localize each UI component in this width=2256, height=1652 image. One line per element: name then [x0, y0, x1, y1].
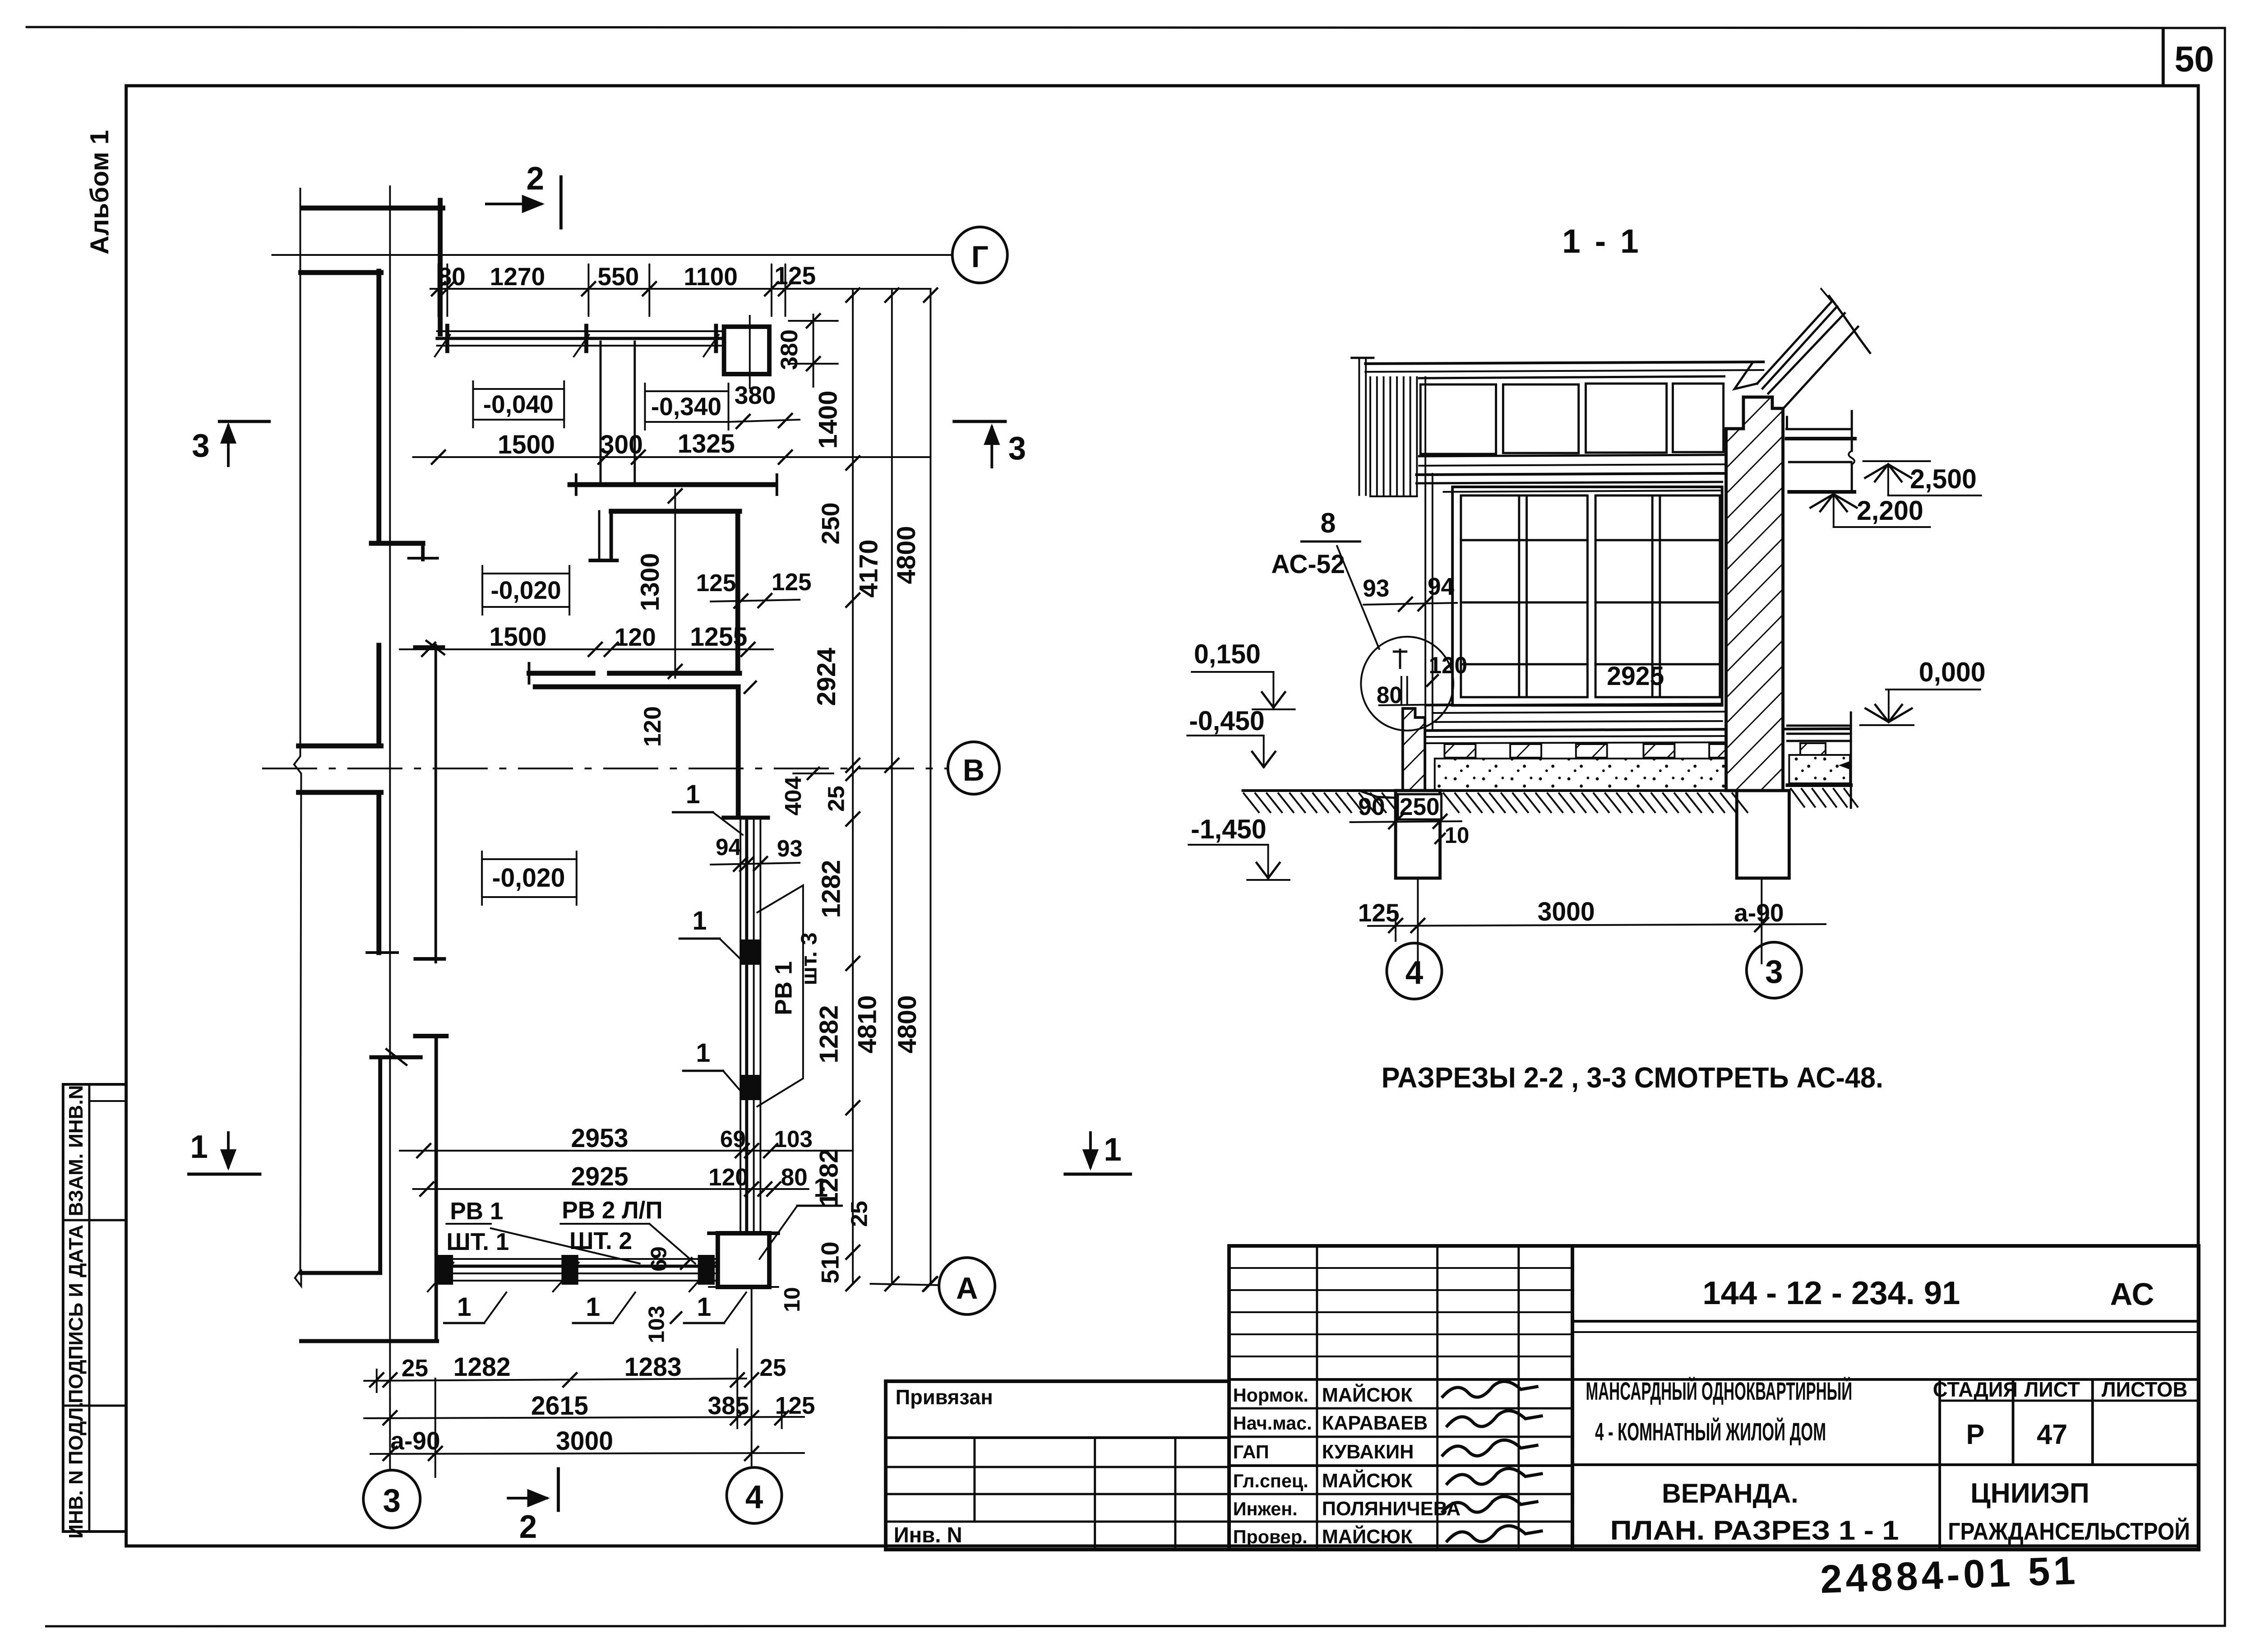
svg-text:МАЙСЮК: МАЙСЮК: [1322, 1469, 1413, 1492]
svg-text:385: 385: [708, 1392, 749, 1420]
svg-text:2925: 2925: [1607, 662, 1664, 691]
svg-text:1400: 1400: [814, 390, 842, 449]
svg-text:4: 4: [1405, 955, 1424, 991]
svg-text:ИНВ. N ПОДЛ.: ИНВ. N ПОДЛ.: [65, 1402, 87, 1538]
right foundation pier: [1737, 791, 1789, 878]
south window strip horizontal: [437, 1258, 718, 1260]
level box -0.340: [645, 391, 728, 422]
right vert dim line 1400/250 chain: [852, 289, 854, 1284]
svg-text:РВ 1: РВ 1: [450, 1198, 503, 1225]
svg-text:МАНСАРДНЫЙ ОДНОКВАРТИРНЫЙ: МАНСАРДНЫЙ ОДНОКВАРТИРНЫЙ: [1586, 1377, 1852, 1405]
svg-text:3000: 3000: [1538, 898, 1595, 926]
svg-text:Инв. N: Инв. N: [894, 1523, 962, 1547]
sheet bottom edge line: [46, 1626, 2225, 1626]
svg-text:1282: 1282: [815, 1005, 843, 1063]
svg-text:1: 1: [1104, 1132, 1121, 1168]
veranda east wall upper pier: [736, 687, 741, 816]
dim row 1500 120 1255: [400, 648, 773, 650]
extension verticals bottom dims: [376, 1370, 378, 1392]
bottom dim 125 3000 a-90: [1368, 924, 1826, 926]
svg-text:4170: 4170: [855, 539, 883, 597]
underfloor fill dotted: [1435, 759, 1735, 790]
left eave post: [1358, 358, 1360, 495]
detail circle 8 AS-52: [1361, 637, 1453, 731]
level box -0.020 upper: [482, 574, 569, 607]
transom band frame: [1419, 376, 1724, 378]
svg-text:2,200: 2,200: [1857, 495, 1923, 526]
pilaster module 3 corner: [415, 1034, 446, 1038]
axis 3 circle: [363, 1470, 420, 1528]
svg-text:2953: 2953: [571, 1124, 628, 1153]
svg-text:Инжен.: Инжен.: [1233, 1498, 1298, 1519]
svg-text:380: 380: [776, 329, 803, 370]
svg-text:а-90: а-90: [1734, 899, 1784, 927]
right floor strip beyond pier: [1787, 725, 1851, 727]
svg-text:СТАДИЯ: СТАДИЯ: [1933, 1378, 2018, 1401]
svg-text:КАРАВАЕВ: КАРАВАЕВ: [1322, 1412, 1428, 1434]
svg-text:50: 50: [2174, 38, 2214, 79]
svg-text:АС-52: АС-52: [1271, 550, 1345, 579]
svg-text:2615: 2615: [531, 1392, 588, 1421]
dim row top: 80 1270 550 1100 125: [430, 288, 930, 290]
axis A stub: [871, 1284, 939, 1285]
svg-text:-0,020: -0,020: [490, 576, 561, 604]
svg-text:69: 69: [646, 1246, 671, 1272]
svg-text:Р: Р: [1966, 1419, 1984, 1451]
svg-text:КУВАКИН: КУВАКИН: [1322, 1441, 1414, 1463]
svg-text:2: 2: [519, 1509, 537, 1546]
rafter slope: [1757, 301, 1831, 384]
svg-text:380: 380: [735, 381, 776, 409]
page number box 50: [2162, 29, 2165, 86]
brick pier hatched: [1726, 397, 1783, 791]
svg-text:А: А: [956, 1272, 978, 1306]
svg-text:Нач.мас.: Нач.мас.: [1233, 1412, 1312, 1434]
svg-text:1: 1: [586, 1293, 600, 1322]
svg-text:В: В: [963, 754, 985, 788]
left sash: [1461, 495, 1588, 697]
svg-text:АС: АС: [2110, 1277, 2154, 1312]
pane label 2925: [1603, 662, 1670, 690]
svg-text:1270: 1270: [490, 263, 546, 291]
top wall window strip (windows 2,3 in plan): [437, 330, 724, 332]
siding stripes: [1369, 377, 1371, 496]
svg-text:80: 80: [781, 1164, 808, 1191]
svg-text:-0,040: -0,040: [483, 390, 554, 418]
svg-text:93: 93: [777, 835, 803, 861]
svg-text:ВЗАМ. ИНВ.N: ВЗАМ. ИНВ.N: [65, 1085, 87, 1217]
svg-text:1 - 1: 1 - 1: [1562, 222, 1641, 260]
svg-text:0,150: 0,150: [1194, 639, 1261, 670]
svg-text:25: 25: [402, 1355, 428, 1382]
detail innards: [1399, 650, 1401, 668]
dim 404 25 marks near B axis: [808, 768, 819, 779]
svg-text:3: 3: [383, 1483, 401, 1519]
interior wall W1 upper: [570, 482, 773, 487]
svg-text:1282: 1282: [817, 860, 846, 918]
level box -0.020 lower: [482, 859, 577, 897]
pilaster module 2 top corner: [415, 645, 443, 650]
sheet top edge line: [27, 27, 2225, 28]
bottom right corner column: [718, 1233, 769, 1287]
svg-text:90: 90: [1358, 793, 1385, 820]
svg-text:ШТ. 2: ШТ. 2: [569, 1227, 632, 1254]
svg-text:1282: 1282: [453, 1353, 511, 1382]
svg-text:РАЗРЕЗЫ 2-2 , 3-3 СМОТРЕТ: РАЗРЕЗЫ 2-2 , 3-3 СМОТРЕТЬ АС-48.: [1382, 1062, 1883, 1094]
top right corner column: [724, 327, 769, 374]
svg-text:Привязан: Привязан: [896, 1386, 993, 1409]
svg-text:1100: 1100: [684, 263, 738, 291]
svg-text:10: 10: [1445, 823, 1470, 848]
svg-text:550: 550: [597, 263, 639, 291]
svg-text:120: 120: [639, 706, 666, 747]
svg-text:120: 120: [1429, 652, 1467, 678]
right sash: [1595, 495, 1720, 697]
svg-text:1325: 1325: [678, 430, 735, 458]
staff signatures: [1442, 1381, 1537, 1397]
svg-text:94: 94: [716, 834, 741, 860]
svg-text:ВЕРАНДА.: ВЕРАНДА.: [1662, 1478, 1798, 1509]
svg-text:144 - 12 - 234. 91: 144 - 12 - 234. 91: [1702, 1275, 1960, 1312]
svg-text:1: 1: [814, 1174, 828, 1203]
svg-text:Альбом 1: Альбом 1: [86, 130, 114, 255]
window head rails: [1416, 482, 1722, 483]
svg-text:ПОДПИСЬ И ДАТА: ПОДПИСЬ И ДАТА: [65, 1225, 87, 1403]
svg-text:80: 80: [438, 263, 466, 291]
eave return at pier top: [1734, 364, 1757, 389]
svg-text:ШТ. 1: ШТ. 1: [446, 1228, 509, 1255]
bottom dims 2615 385 125: [364, 1417, 804, 1418]
east strip mullion blocks: [743, 941, 758, 963]
svg-text:Провер.: Провер.: [1233, 1526, 1308, 1547]
svg-text:1283: 1283: [624, 1353, 682, 1382]
bottom dims a-90 3000: [370, 1453, 804, 1454]
svg-text:125: 125: [696, 569, 736, 597]
left foundation pier: [1396, 791, 1440, 878]
house left wall outer thin line: [294, 189, 301, 1286]
svg-text:ГАП: ГАП: [1233, 1441, 1269, 1462]
house left wall inner thin line: [389, 186, 391, 1399]
svg-text:Гл.спец.: Гл.спец.: [1233, 1470, 1308, 1491]
svg-text:Нормок.: Нормок.: [1233, 1384, 1308, 1406]
ground line: [1243, 789, 1396, 792]
svg-text:2925: 2925: [571, 1162, 628, 1191]
house bottom wall: [301, 1339, 437, 1343]
svg-text:4 - КОМНАТНЫЙ ЖИЛОЙ ДОМ: 4 - КОМНАТНЫЙ ЖИЛОЙ ДОМ: [1595, 1417, 1826, 1446]
title block: staff table: [1229, 1246, 1572, 1550]
svg-text:а-90: а-90: [390, 1427, 440, 1455]
axis V line dash-dot: [263, 768, 948, 769]
section circle 3: [1747, 942, 1802, 998]
bottom dims 25 1282 1283 25: [364, 1379, 746, 1381]
svg-text:1: 1: [693, 907, 707, 935]
svg-text:404: 404: [780, 776, 806, 815]
title block: main block: [1572, 1246, 2199, 1550]
pilaster module 2 body: [376, 645, 381, 746]
svg-text:-1,450: -1,450: [1191, 814, 1266, 845]
svg-text:шт. 3: шт. 3: [796, 932, 822, 985]
left plinth hatched: [1403, 708, 1425, 791]
house top lintel wall: [303, 206, 443, 211]
section left wall lines: [1424, 377, 1426, 731]
right vert dim line 4800: [929, 289, 931, 1284]
interior wall right vertical: [735, 511, 740, 673]
svg-text:РВ 2 Л/П: РВ 2 Л/П: [562, 1197, 662, 1224]
svg-text:47: 47: [2037, 1419, 2067, 1451]
svg-text:3: 3: [1765, 954, 1783, 990]
beam stack right of pier: [1786, 417, 1788, 429]
svg-text:25: 25: [846, 1201, 872, 1227]
main window outer frame: [1452, 487, 1722, 705]
transom panes: [1420, 384, 1496, 454]
svg-text:8: 8: [1321, 508, 1336, 539]
svg-text:-0,340: -0,340: [651, 393, 721, 421]
svg-text:4: 4: [745, 1479, 763, 1516]
svg-text:103: 103: [774, 1126, 813, 1152]
svg-text:-0,020: -0,020: [492, 864, 565, 893]
svg-text:2,500: 2,500: [1910, 464, 1977, 495]
svg-text:ЛИСТ: ЛИСТ: [2024, 1378, 2080, 1401]
svg-text:Г: Г: [971, 240, 989, 274]
svg-text:103: 103: [644, 1305, 669, 1343]
interior partition 300: [599, 342, 601, 485]
svg-text:25: 25: [823, 786, 849, 812]
svg-text:120: 120: [615, 623, 656, 651]
svg-text:3: 3: [1008, 430, 1026, 467]
window sill rails: [1425, 704, 1722, 705]
svg-text:125: 125: [774, 262, 816, 290]
svg-text:4800: 4800: [893, 995, 921, 1053]
south strip mullions: [438, 1256, 452, 1283]
svg-text:3000: 3000: [556, 1427, 613, 1456]
svg-text:1: 1: [696, 1039, 710, 1068]
roof top double line: [1365, 362, 1763, 364]
svg-text:МАЙСЮК: МАЙСЮК: [1322, 1525, 1413, 1548]
svg-text:120: 120: [708, 1164, 749, 1191]
svg-text:1: 1: [697, 1293, 711, 1322]
title block: privyazan box: [886, 1381, 1229, 1550]
svg-text:2924: 2924: [812, 648, 841, 706]
floor deck lines: [1425, 729, 1850, 731]
svg-text:300: 300: [600, 430, 643, 459]
dim 1300 vertical: [674, 490, 676, 678]
svg-text:1500: 1500: [498, 430, 555, 459]
pilaster module 1: [376, 271, 381, 543]
axis V circle: [948, 742, 999, 794]
dim 125 125: [711, 600, 800, 602]
veranda west wall line: [435, 1036, 438, 1341]
svg-text:93: 93: [1363, 575, 1389, 602]
svg-text:1: 1: [190, 1129, 208, 1166]
floor joist blocks: [1444, 744, 1475, 758]
svg-text:1300: 1300: [636, 553, 664, 611]
dim row 2925 120 80: [413, 1188, 809, 1190]
right vert dim line 4170/4810: [891, 289, 893, 1284]
dim row 2: 1500 300 1325: [413, 456, 931, 458]
svg-text:1255: 1255: [690, 623, 747, 652]
section circle 4: [1387, 943, 1442, 999]
svg-text:ЦНИИЭП: ЦНИИЭП: [1970, 1478, 2090, 1509]
svg-text:ПЛАН. РАЗРЕЗ 1 - 1: ПЛАН. РАЗРЕЗ 1 - 1: [1610, 1515, 1899, 1546]
interior wall W2 double: [610, 671, 740, 676]
window strip mullion marks top: [445, 326, 449, 351]
svg-text:0,000: 0,000: [1919, 657, 1986, 688]
right vert dim 380 segment: [813, 315, 814, 387]
ground hatching: [1244, 793, 1258, 812]
svg-text:1: 1: [686, 780, 700, 809]
svg-text:4810: 4810: [853, 995, 882, 1053]
svg-text:250: 250: [817, 502, 845, 544]
svg-text:80: 80: [1377, 682, 1402, 708]
axis 4 bottom stub: [751, 1287, 753, 1468]
dim line through window 80/120 level: [1379, 704, 1452, 705]
svg-text:250: 250: [1400, 793, 1440, 820]
svg-text:МАЙСЮК: МАЙСЮК: [1322, 1383, 1413, 1406]
svg-text:3: 3: [192, 428, 209, 464]
svg-text:2: 2: [527, 161, 544, 197]
axis 3 bottom stub: [389, 1399, 391, 1470]
veranda west wall top pier: [438, 200, 443, 334]
svg-text:125: 125: [772, 569, 812, 596]
svg-text:ГРАЖДАНСЕЛЬСТРОЙ: ГРАЖДАНСЕЛЬСТРОЙ: [1948, 1518, 2190, 1545]
svg-text:24884-01 51: 24884-01 51: [1820, 1548, 2080, 1601]
svg-text:РВ 1: РВ 1: [770, 961, 797, 1015]
svg-text:510: 510: [816, 1241, 844, 1283]
axis G line: [272, 254, 952, 256]
transom bottom rails: [1419, 464, 1725, 466]
left margin stamp table: [63, 1084, 126, 1532]
svg-text:125: 125: [1358, 899, 1400, 927]
svg-text:69: 69: [720, 1126, 746, 1152]
house south-west wall: [301, 1271, 380, 1275]
svg-text:10: 10: [779, 1287, 804, 1312]
axis A circle: [939, 1258, 995, 1314]
svg-text:4800: 4800: [892, 526, 920, 584]
axis G circle: [952, 227, 1008, 283]
svg-text:ПОЛЯНИЧЕВА: ПОЛЯНИЧЕВА: [1322, 1498, 1461, 1520]
svg-text:1500: 1500: [489, 623, 546, 652]
level box -0.040: [473, 389, 564, 420]
svg-text:-0,450: -0,450: [1189, 706, 1264, 736]
axis 4 circle: [727, 1467, 782, 1523]
svg-text:25: 25: [759, 1354, 786, 1381]
east window strip vertical: [740, 818, 741, 1233]
svg-text:1: 1: [457, 1293, 472, 1322]
svg-text:ЛИСТОВ: ЛИСТОВ: [2102, 1378, 2187, 1401]
